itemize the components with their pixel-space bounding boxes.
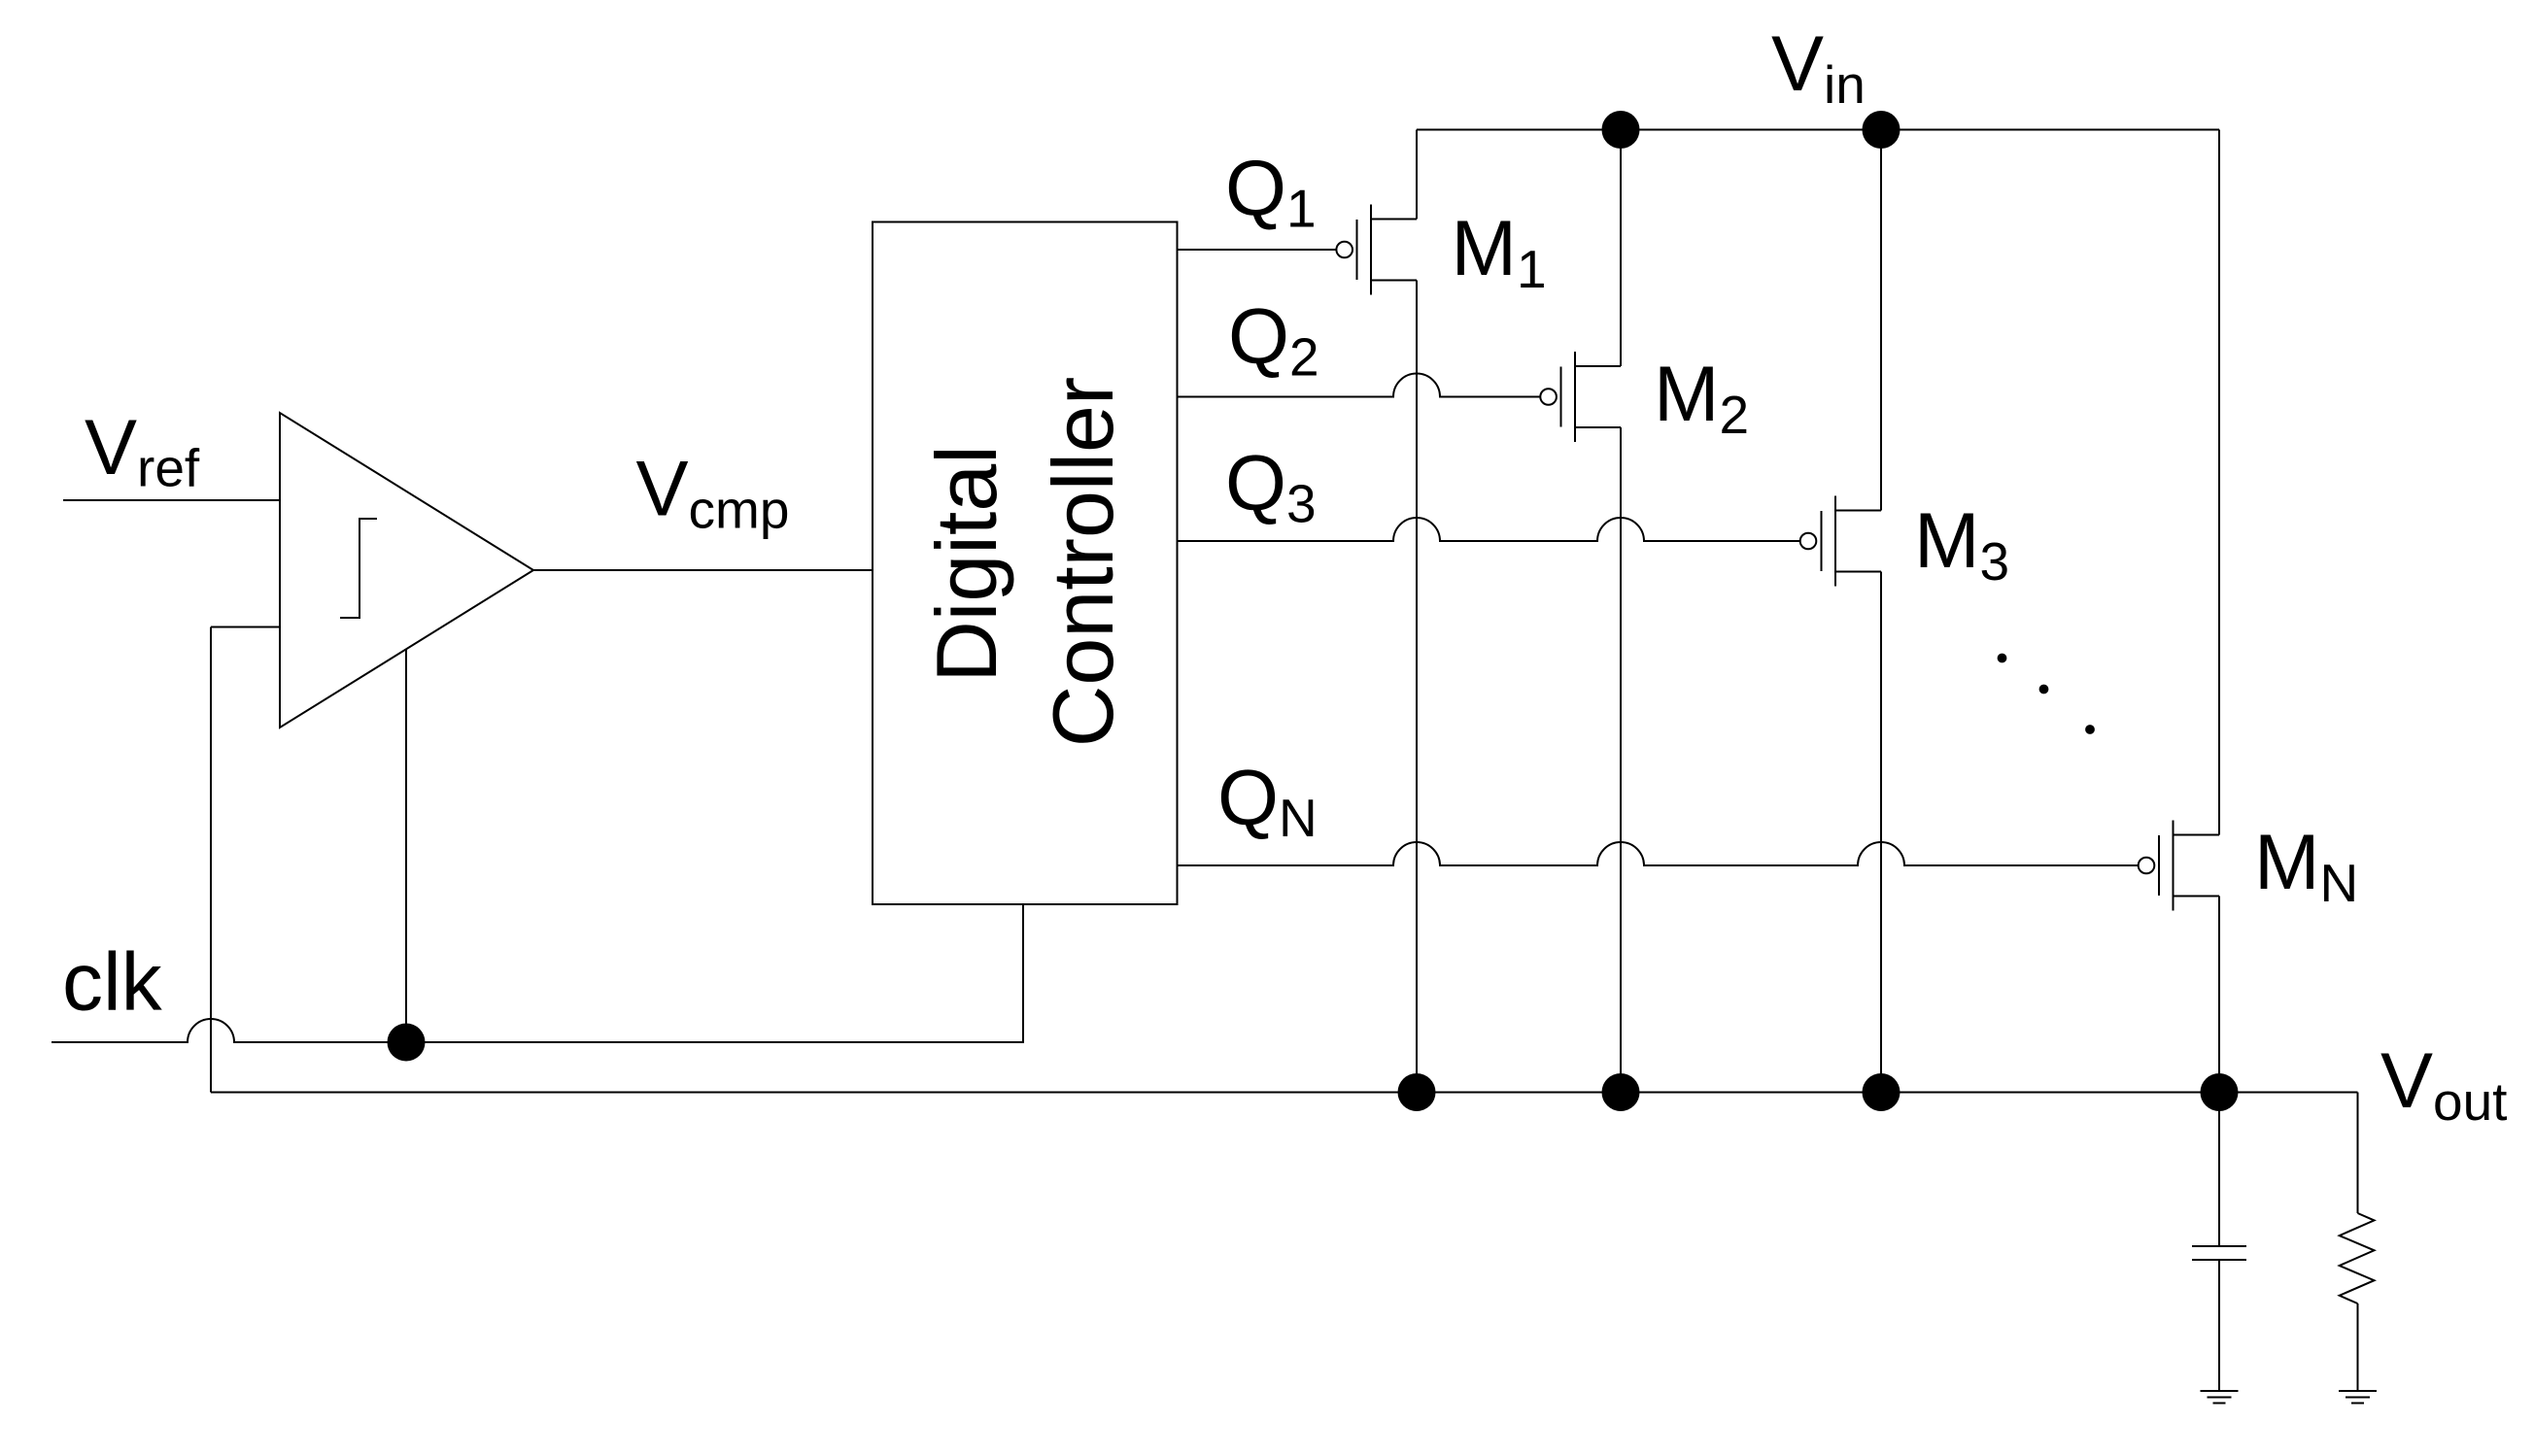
node Digital Controller label xyxy=(918,377,1131,747)
capacitor C1 top lead xyxy=(2218,1093,2220,1246)
node ellipsis dots xyxy=(1998,654,2095,734)
svg-text:Q: Q xyxy=(1217,755,1279,842)
transistor M3 PMOS xyxy=(1800,496,1881,587)
wire QN gate line with hops over rails 1,2,3 xyxy=(1177,842,2139,865)
wire rail 1 lower xyxy=(1416,281,1418,1093)
capacitor C1 plates xyxy=(2192,1245,2246,1247)
wire rail 3 lower xyxy=(1880,572,1882,1093)
wire Q2 gate line with hop over rail 1 xyxy=(1177,374,1540,397)
node QN label xyxy=(1217,755,1318,849)
svg-text:2: 2 xyxy=(1289,327,1319,388)
junction Vout node xyxy=(2201,1073,2239,1111)
wire inverting input stub xyxy=(211,626,280,628)
svg-text:V: V xyxy=(2380,1037,2433,1125)
resistor R1 bottom lead xyxy=(2357,1304,2359,1391)
svg-text:M: M xyxy=(1914,497,1979,585)
junction Vin rail 2 xyxy=(1602,111,1640,149)
svg-text:2: 2 xyxy=(1720,385,1750,445)
hysteresis symbol inside comparator xyxy=(340,519,377,618)
ground under capacitor xyxy=(2201,1391,2239,1404)
wire clk input with hop over feedback xyxy=(51,904,1023,1042)
node M2 label xyxy=(1654,351,1749,445)
svg-text:M: M xyxy=(2254,819,2319,906)
svg-text:out: out xyxy=(2433,1071,2507,1132)
svg-text:N: N xyxy=(1279,788,1318,848)
node Q1 label xyxy=(1225,145,1317,239)
svg-text:in: in xyxy=(1824,54,1866,115)
wire rail 2 lower xyxy=(1620,427,1622,1093)
junction clk node xyxy=(388,1024,426,1062)
wire rail 3 upper xyxy=(1880,130,1882,511)
wire Vcmp comparator output xyxy=(533,569,873,571)
svg-text:Q: Q xyxy=(1228,293,1289,381)
wire Vout to resistor xyxy=(2357,1093,2359,1214)
node MN label xyxy=(2254,819,2358,913)
wire Vout feedback bottom xyxy=(211,1092,2358,1094)
ground under resistor xyxy=(2339,1391,2377,1404)
node Q2 label xyxy=(1228,293,1319,388)
svg-text:V: V xyxy=(85,404,137,491)
svg-text:clk: clk xyxy=(62,936,163,1028)
svg-text:V: V xyxy=(636,446,689,533)
svg-text:Controller: Controller xyxy=(1035,377,1131,747)
svg-text:3: 3 xyxy=(1286,474,1317,534)
junction rail 3 to Vout xyxy=(1863,1073,1900,1111)
node Vcmp label xyxy=(636,446,790,540)
svg-text:ref: ref xyxy=(137,438,200,498)
wire Vref input xyxy=(63,499,280,501)
wire feedback vertical from Vout xyxy=(210,627,212,1093)
svg-text:Q: Q xyxy=(1225,440,1286,527)
wire rail 4 upper xyxy=(2218,130,2220,835)
junction rail 1 to Vout xyxy=(1398,1073,1436,1111)
node clk label xyxy=(62,936,163,1028)
resistor R1 zigzag xyxy=(2340,1213,2375,1304)
node Vref label xyxy=(85,404,200,498)
svg-text:3: 3 xyxy=(1980,531,2010,592)
wire Q1 gate line xyxy=(1177,249,1336,251)
node M3 label xyxy=(1914,497,2009,592)
block U2 Digital Controller box xyxy=(873,222,1178,905)
node Vin label xyxy=(1771,20,1866,115)
junction rail 2 to Vout xyxy=(1602,1073,1640,1111)
svg-text:1: 1 xyxy=(1286,179,1317,239)
junction Vin rail 3 xyxy=(1863,111,1900,149)
svg-text:N: N xyxy=(2320,853,2359,913)
svg-text:1: 1 xyxy=(1517,239,1547,299)
svg-text:Q: Q xyxy=(1225,145,1286,232)
svg-text:cmp: cmp xyxy=(689,480,790,540)
svg-text:Digital: Digital xyxy=(918,445,1014,683)
transistor M1 PMOS xyxy=(1336,205,1417,295)
capacitor C1 bottom lead xyxy=(2218,1260,2220,1391)
transistor M2 PMOS xyxy=(1540,352,1621,442)
op-amp U1 comparator triangle xyxy=(280,413,533,728)
wire rail 2 upper xyxy=(1620,130,1622,367)
wire Vin top rail xyxy=(1417,129,2219,131)
wire Q3 gate line with hops over rails 1,2 xyxy=(1177,518,1800,541)
wire comparator clock connection xyxy=(405,649,407,1042)
node M1 label xyxy=(1452,205,1547,299)
transistor MN PMOS xyxy=(2139,821,2219,911)
svg-text:M: M xyxy=(1654,351,1719,438)
wire rail 4 lower xyxy=(2218,897,2220,1093)
node Q3 label xyxy=(1225,440,1317,534)
wire rail 1 upper xyxy=(1416,130,1418,220)
svg-text:M: M xyxy=(1452,205,1517,292)
node Vout label xyxy=(2380,1037,2507,1132)
svg-text:V: V xyxy=(1771,20,1824,108)
